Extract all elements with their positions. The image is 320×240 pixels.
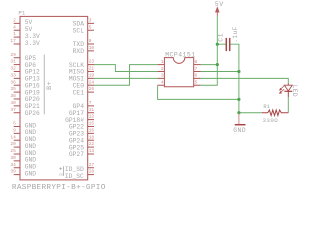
- P1 pin 31 (GP6) stub: [14, 64, 20, 66]
- IC1 pin 6 stub: [194, 77, 201, 79]
- svg-text:14: 14: [10, 134, 16, 140]
- wire C1 left to 5V rail: [217, 43, 226, 45]
- P1 pin 11 (GP17) stub: [88, 112, 94, 114]
- svg-text:13: 13: [89, 148, 95, 154]
- svg-text:GND: GND: [25, 170, 37, 177]
- svg-text:B+: B+: [46, 81, 53, 90]
- P1 pin 12 (GP18#) stub: [88, 119, 94, 121]
- svg-text:30: 30: [10, 155, 16, 161]
- svg-text:37: 37: [10, 107, 16, 113]
- svg-text:4: 4: [13, 24, 16, 30]
- IC1 pin 2 stub: [158, 70, 165, 72]
- P1 pin 27 (ID_SD) stub: [88, 167, 94, 169]
- P1 pin 14 (GND) stub: [14, 139, 20, 141]
- P1 pin 28 (ID_SC) stub: [88, 174, 94, 176]
- ID group label plus v: [60, 167, 62, 170]
- P1 pin 23 (SCLK) stub: [88, 64, 94, 66]
- P1 pin 5 (SCL) stub: [88, 29, 94, 31]
- junction ground rail / pin 7: [237, 70, 240, 73]
- svg-text:3.3V: 3.3V: [25, 40, 40, 47]
- svg-text:27: 27: [89, 162, 95, 168]
- svg-text:15: 15: [89, 121, 95, 127]
- svg-text:25: 25: [10, 148, 16, 154]
- LED1 emission arrows: [280, 86, 284, 90]
- IC1 pin 4 stub: [158, 84, 165, 86]
- P1 pin 17 (3.3V) stub: [14, 43, 20, 45]
- svg-text:RASPBERRYPI-B+-GPIO: RASPBERRYPI-B+-GPIO: [12, 184, 106, 191]
- svg-text:16: 16: [89, 127, 95, 133]
- LED1 symbol: [287, 84, 289, 86]
- P1 pin 20 (GND) stub: [14, 146, 20, 148]
- svg-text:C1: C1: [217, 33, 224, 42]
- svg-text:35: 35: [10, 86, 16, 92]
- svg-text:39: 39: [10, 169, 16, 175]
- wire IC1 wiper to LED anode: [201, 78, 289, 83]
- P1 pin 18 (GP24) stub: [88, 139, 94, 141]
- svg-text:.1uF: .1uF: [232, 26, 239, 43]
- svg-text:co: co: [59, 173, 63, 177]
- P1 pin 2 (5V) stub: [14, 22, 20, 24]
- IC1 pin 8 stub: [194, 64, 201, 66]
- B+ group bracket line: [43, 55, 45, 115]
- P1 pin 40 (GP21) stub: [14, 105, 20, 107]
- IC1 pin 3 stub: [158, 77, 165, 79]
- P1 pin 8 (TXD) stub: [88, 43, 94, 45]
- svg-text:MCP4151: MCP4151: [165, 52, 195, 59]
- P1 pin 38 (GP20) stub: [14, 98, 20, 100]
- svg-text:7: 7: [89, 100, 92, 106]
- svg-text:3: 3: [161, 73, 164, 79]
- svg-text:7: 7: [195, 66, 198, 72]
- P1 pin 22 (GP25) stub: [88, 146, 94, 148]
- wire CE0 to IC1 CS: [94, 65, 158, 86]
- junction 5V rail / VDD: [216, 63, 219, 66]
- svg-text:CE1: CE1: [73, 89, 85, 96]
- svg-text:8: 8: [89, 38, 92, 44]
- capacitor C1 plates: [225, 38, 227, 51]
- ID group label plus h: [59, 168, 62, 170]
- P1 pin 39 (GND) stub: [14, 174, 20, 176]
- P1 pin 7 (GP4) stub: [88, 105, 94, 107]
- IC1 pin 1 stub: [158, 64, 165, 66]
- svg-text:GND: GND: [233, 127, 246, 134]
- svg-text:P1: P1: [18, 9, 25, 16]
- P1 pin 9 (GND) stub: [14, 132, 20, 134]
- svg-text:18: 18: [89, 134, 95, 140]
- P1 pin 35 (GP19) stub: [14, 91, 20, 93]
- svg-text:4: 4: [161, 80, 164, 86]
- wire C1 right down ground rail: [230, 44, 239, 113]
- IC1 pin 7 stub: [194, 70, 201, 72]
- svg-text:5: 5: [89, 24, 92, 30]
- P1 pin 1 (3.3V) stub: [14, 36, 20, 38]
- svg-text:20: 20: [10, 141, 16, 147]
- P1 pin 21 (MISO) stub: [88, 70, 94, 72]
- wire SCLK to IC1 SCK: [94, 65, 158, 72]
- svg-text:34: 34: [10, 162, 16, 168]
- svg-text:31: 31: [10, 59, 16, 65]
- svg-text:2: 2: [161, 66, 164, 72]
- svg-text:11: 11: [89, 107, 95, 113]
- svg-text:38: 38: [10, 93, 16, 99]
- P1 pin 16 (GP23) stub: [88, 132, 94, 134]
- svg-text:23: 23: [89, 59, 95, 65]
- svg-text:29: 29: [10, 52, 16, 58]
- svg-text:8: 8: [195, 59, 198, 65]
- wire IC1 pin 7 to ground rail: [201, 70, 239, 72]
- P1 pin 32 (GP12) stub: [14, 70, 20, 72]
- ID group bracket line: [62, 166, 64, 176]
- svg-text:RXD: RXD: [73, 48, 85, 55]
- svg-text:28: 28: [89, 169, 95, 175]
- svg-text:6: 6: [13, 121, 16, 127]
- svg-text:ID_SC: ID_SC: [65, 173, 84, 180]
- digital potentiometer IC1 MCP4151 body: [164, 58, 193, 87]
- P1 pin 24 (CE0) stub: [88, 84, 94, 86]
- svg-text:5V: 5V: [215, 1, 224, 8]
- junction ground rail / VSS: [237, 98, 240, 101]
- svg-text:17: 17: [10, 38, 16, 44]
- P1 pin 4 (5V) stub: [14, 29, 20, 31]
- svg-text:1: 1: [161, 59, 164, 65]
- P1 pin 25 (GND) stub: [14, 153, 20, 155]
- P1 pin 36 (GP16) stub: [14, 84, 20, 86]
- svg-text:GP27: GP27: [69, 151, 84, 158]
- svg-text:10: 10: [89, 45, 95, 51]
- IC1 pin 5 stub: [194, 84, 201, 86]
- svg-text:6: 6: [195, 73, 198, 79]
- P1 pin 37 (GP26) stub: [14, 112, 20, 114]
- junction ground rail / R1: [237, 111, 240, 114]
- svg-text:19: 19: [89, 72, 95, 78]
- svg-text:3: 3: [89, 17, 92, 23]
- P1 pin 34 (GND) stub: [14, 167, 20, 169]
- svg-text:24: 24: [89, 79, 95, 85]
- ground symbol GND: [238, 114, 240, 125]
- P1 pin 13 (GP27) stub: [88, 153, 94, 155]
- svg-text:33: 33: [10, 72, 16, 78]
- svg-text:22: 22: [89, 141, 95, 147]
- svg-text:36: 36: [10, 79, 16, 85]
- P1 pin 19 (MOSI) stub: [88, 77, 94, 79]
- svg-text:LED: LED: [291, 85, 298, 97]
- svg-text:330Ω: 330Ω: [263, 117, 279, 124]
- svg-text:5: 5: [195, 80, 198, 86]
- wire MOSI to IC1 SDI: [94, 77, 158, 79]
- wire 5V rail down to IC1 pin 5: [201, 16, 218, 85]
- wire ground rail to R1 left: [239, 112, 262, 114]
- P1 pin 3 (SDA) stub: [88, 22, 94, 24]
- P1 pin 10 (RXD) stub: [88, 50, 94, 52]
- svg-text:R1: R1: [263, 104, 269, 110]
- P1 pin 6 (GND) stub: [14, 125, 20, 127]
- resistor R1 zigzag: [262, 110, 289, 116]
- wire LED cathode to R1 right: [287, 97, 289, 113]
- svg-text:SCL: SCL: [73, 27, 85, 34]
- svg-text:GP26: GP26: [25, 110, 40, 117]
- P1 pin 29 (GP5) stub: [14, 57, 20, 59]
- supply symbol +5V arrow: [215, 7, 219, 13]
- wire IC1 VSS to ground rail: [158, 85, 239, 99]
- P1 pin 30 (GND) stub: [14, 160, 20, 162]
- svg-text:21: 21: [89, 66, 95, 72]
- svg-text:2: 2: [13, 17, 16, 23]
- svg-text:12: 12: [89, 114, 95, 120]
- svg-text:40: 40: [10, 100, 16, 106]
- svg-text:32: 32: [10, 66, 16, 72]
- wire IC1 VDD to 5V rail: [201, 64, 218, 66]
- P1 pin 15 (GP22) stub: [88, 125, 94, 127]
- P1 pin 26 (CE1) stub: [88, 91, 94, 93]
- junction 5V rail / C1: [216, 43, 219, 46]
- svg-text:26: 26: [89, 86, 95, 92]
- svg-text:9: 9: [13, 127, 16, 133]
- connector P1 RASPBERRYPI-B+-GPIO body: [20, 16, 88, 180]
- svg-text:1: 1: [13, 31, 16, 37]
- P1 pin 33 (GP13) stub: [14, 77, 20, 79]
